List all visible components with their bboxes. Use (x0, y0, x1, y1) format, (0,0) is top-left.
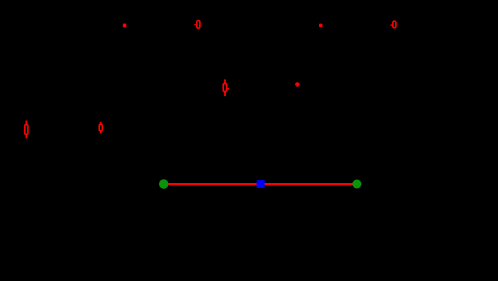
graph node right (green circle) (352, 180, 361, 189)
graph edge (red line) (164, 183, 357, 185)
graph node center (blue square) (257, 180, 265, 188)
radical dot (molecule 2, top-right) (319, 24, 323, 28)
plus sign (reaction, middle) (295, 82, 300, 87)
O atom label with bond stubs (bottom-left molecule, right O) (99, 122, 102, 133)
graph node left (green circle) (159, 179, 168, 188)
radical dot (molecule 1, top-left) (123, 24, 127, 28)
O atom label with double-bond stubs (middle molecule) (223, 79, 229, 96)
O atom label with bond stubs (bottom-left molecule, left O) (25, 121, 28, 139)
O atom label (molecule 1) (194, 21, 200, 29)
O atom label (molecule 2) (390, 21, 396, 28)
